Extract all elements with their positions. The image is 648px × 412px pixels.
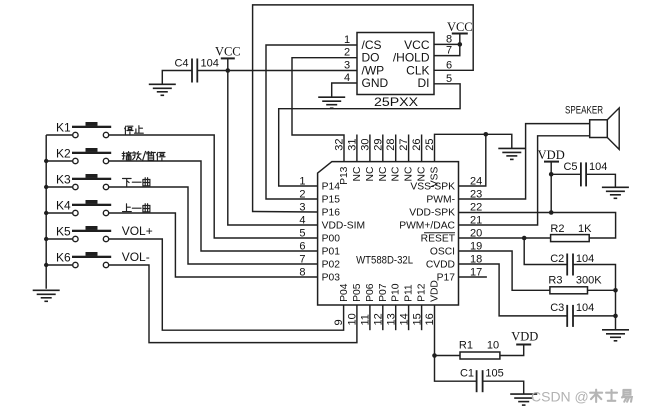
wire DI to U1 P14 <box>279 84 460 186</box>
junction VSS node <box>484 132 489 137</box>
junction VDD/R1 node <box>432 353 437 358</box>
svg-text:NC: NC <box>365 166 376 181</box>
svg-text:VDD: VDD <box>430 280 441 302</box>
pushbutton K5 <box>46 226 111 242</box>
svg-text:P00: P00 <box>322 233 341 244</box>
wire RESET (pin20) to R2 <box>459 237 551 239</box>
speaker LS1 <box>590 108 620 149</box>
watermark CSDN @木士易 <box>531 389 632 405</box>
svg-text:1: 1 <box>299 176 305 188</box>
wire K2 to U1 P01 <box>109 161 318 251</box>
svg-text:P04: P04 <box>339 283 350 302</box>
junction VCC//HOLD node <box>458 42 463 47</box>
wire C1 row right to ground <box>483 381 524 394</box>
wire K6 to U1 P05 (pin10) <box>109 265 357 343</box>
svg-text:8: 8 <box>299 267 305 279</box>
svg-text:5: 5 <box>299 228 305 240</box>
svg-text:7: 7 <box>446 45 452 57</box>
wire /HOLD riser to VCC <box>434 34 460 56</box>
wire PWM- (pin23) to speaker top <box>459 124 590 199</box>
ground at VSS <box>498 148 525 159</box>
pushbutton K2 <box>46 148 111 164</box>
svg-text:VDD-SPK: VDD-SPK <box>409 207 455 218</box>
wire C5 row right to ground <box>586 174 615 187</box>
svg-text:6: 6 <box>446 59 452 71</box>
ground at button bus <box>33 290 60 301</box>
ground at C1 <box>510 394 537 405</box>
svg-text:VSS: VSS <box>430 166 441 187</box>
wire K3 to U1 P02 <box>109 187 318 264</box>
junction bus K5 <box>44 237 48 241</box>
svg-text:C5: C5 <box>563 161 577 173</box>
svg-text:K5: K5 <box>56 225 71 239</box>
svg-text:104: 104 <box>576 302 594 314</box>
junction bus K3 <box>44 185 48 189</box>
wire VDD stem <box>550 162 552 213</box>
svg-text:NC: NC <box>391 166 402 181</box>
svg-text:RESET: RESET <box>421 233 456 244</box>
wire C3 right to node column <box>573 315 616 317</box>
svg-text:CSDN @: CSDN @ <box>531 389 589 405</box>
svg-text:300K: 300K <box>576 275 602 287</box>
svg-text:C1: C1 <box>460 367 474 379</box>
wire node column to ground <box>615 290 617 330</box>
wire R1 row left <box>435 355 461 357</box>
capacitor C1 plates <box>477 370 483 392</box>
svg-text:15: 15 <box>411 313 423 325</box>
svg-text:105: 105 <box>485 367 503 379</box>
wire VSS (pin25) to ground <box>435 134 512 161</box>
bottom pin stubs pins 11-15 <box>370 305 422 330</box>
junction VDD/C5 <box>549 172 554 177</box>
svg-text:10: 10 <box>487 339 499 351</box>
svg-text:1: 1 <box>344 34 350 46</box>
svg-text:NC: NC <box>417 166 428 181</box>
pushbutton K1 <box>46 122 111 138</box>
IC U1 WT588D-32L body <box>318 162 459 305</box>
svg-text:30: 30 <box>359 139 371 151</box>
svg-text:5: 5 <box>446 73 452 85</box>
wire K4 to U1 P03 <box>109 213 318 277</box>
wire R3 right to node column <box>588 289 616 291</box>
label 下一曲 (next track) <box>123 178 150 187</box>
svg-text:K2: K2 <box>56 147 71 161</box>
svg-text:C3: C3 <box>550 302 564 314</box>
top pin stubs NC pins 31-26 <box>357 135 422 162</box>
label 上一曲 (previous track) <box>123 204 150 212</box>
svg-text:SPEAKER: SPEAKER <box>565 105 603 117</box>
junction C4/VCC node <box>226 68 231 73</box>
power VDD symbol (C5 node) <box>538 148 565 162</box>
svg-text:3: 3 <box>299 202 305 214</box>
IC 25PXX body <box>357 33 434 95</box>
label 播放/暂停 (play/pause) <box>122 151 165 160</box>
svg-text:11: 11 <box>360 314 372 325</box>
junction R3/C2 node <box>613 288 618 293</box>
pin labels NC (rotated) <box>352 166 428 181</box>
svg-text:NC: NC <box>352 166 363 181</box>
svg-text:104: 104 <box>589 161 607 173</box>
svg-text:K1: K1 <box>56 121 71 135</box>
junction VDD/VDD-SPK <box>549 210 554 215</box>
ground at C5 <box>602 187 629 198</box>
wire OSCI (pin19) to R3 <box>459 251 550 290</box>
wire C2 right to node column <box>573 265 616 291</box>
wire K1 to U1 P00 <box>109 135 318 238</box>
power VCC symbol (C4 node) <box>215 45 241 59</box>
wire VCC tap to U1 VDD-SIM <box>228 58 318 225</box>
capacitor C5 plates <box>581 162 586 186</box>
svg-text:7: 7 <box>299 254 305 266</box>
svg-text:VOL+: VOL+ <box>122 224 153 238</box>
svg-text:12: 12 <box>373 313 385 325</box>
wire /WP row right of C4 <box>197 70 357 72</box>
pushbutton K3 <box>46 174 111 190</box>
svg-text:C4: C4 <box>174 58 188 70</box>
svg-text:4: 4 <box>299 215 305 227</box>
junction bus K4 <box>44 211 48 215</box>
svg-text:32: 32 <box>334 139 346 151</box>
pin label RESET with overline <box>421 233 456 245</box>
svg-text:6: 6 <box>299 241 305 253</box>
svg-text:P01: P01 <box>322 246 341 257</box>
svg-text:8: 8 <box>446 33 452 45</box>
wire C4 to ground <box>162 71 192 85</box>
junction RESET node <box>522 236 527 241</box>
svg-text:28: 28 <box>385 139 397 151</box>
svg-text:GND: GND <box>362 76 389 90</box>
svg-text:26: 26 <box>411 139 423 151</box>
svg-text:VCC: VCC <box>447 20 473 34</box>
wire button common bus <box>45 135 47 289</box>
svg-text:DI: DI <box>418 76 430 90</box>
svg-text:K6: K6 <box>56 251 71 265</box>
svg-text:31: 31 <box>346 139 358 151</box>
svg-text:VOL-: VOL- <box>122 250 150 264</box>
svg-text:P12: P12 <box>417 283 428 302</box>
capacitor C4 plates <box>192 59 197 83</box>
svg-text:9: 9 <box>333 319 345 325</box>
svg-text:VDD-SIM: VDD-SIM <box>322 220 365 231</box>
wire VCC: 25PXX pin8 <box>434 43 460 45</box>
svg-text:P06: P06 <box>365 283 376 302</box>
svg-text:CVDD: CVDD <box>426 259 455 270</box>
svg-text:27: 27 <box>398 139 410 151</box>
svg-text:PWM-: PWM- <box>426 194 455 205</box>
svg-text:P02: P02 <box>322 259 341 270</box>
ground at C4 <box>149 84 176 95</box>
capacitor C3 plates <box>567 305 573 327</box>
svg-text:R1: R1 <box>459 339 473 351</box>
svg-text:PWM+/DAC: PWM+/DAC <box>399 220 455 231</box>
svg-text:R2: R2 <box>550 223 564 235</box>
wire R1 right to VDD <box>500 345 524 356</box>
svg-text:NC: NC <box>378 166 389 181</box>
wire C5 row left <box>551 173 581 175</box>
svg-text:22: 22 <box>470 202 482 214</box>
svg-text:14: 14 <box>398 313 410 325</box>
svg-text:29: 29 <box>372 139 384 151</box>
svg-text:VCC: VCC <box>215 45 241 59</box>
wire VDD-SPK (pin22) to R2 right end <box>459 213 616 239</box>
svg-text:K3: K3 <box>56 173 71 187</box>
svg-text:WT588D-32L: WT588D-32L <box>356 255 413 267</box>
svg-text:1K: 1K <box>578 223 592 235</box>
ground at RC node column <box>602 330 629 341</box>
wire VDD (pin16) down to C1 row <box>435 305 477 381</box>
wire CLK loop to U1 P16 <box>253 5 474 212</box>
wire DO: 25PXX pin2 to U1 P13 (pin32) <box>292 58 357 162</box>
svg-text:P16: P16 <box>322 207 341 218</box>
wire K5 to U1 P04 (pin9) <box>109 239 344 330</box>
svg-text:25PXX: 25PXX <box>374 95 418 109</box>
junction C3 node <box>613 314 618 319</box>
svg-text:P03: P03 <box>322 272 341 283</box>
wire RESET branch to C2 <box>524 238 567 265</box>
wire /CS: 25PXX pin1 to U1 P15 <box>266 45 357 199</box>
svg-text:P15: P15 <box>322 194 341 205</box>
svg-text:2: 2 <box>299 189 305 201</box>
svg-text:P10: P10 <box>391 283 402 302</box>
svg-text:P07: P07 <box>378 283 389 302</box>
label 停止 (stop) <box>125 126 144 134</box>
wire P17 stub (pin17) <box>459 276 487 278</box>
svg-text:P05: P05 <box>352 283 363 302</box>
pushbutton K4 <box>46 200 111 216</box>
svg-text:NC: NC <box>404 166 415 181</box>
svg-text:P14: P14 <box>322 181 341 192</box>
wire PWM+/DAC (pin21) to speaker bottom <box>459 136 590 225</box>
svg-text:2: 2 <box>344 47 350 59</box>
resistor R3 body <box>550 287 588 294</box>
svg-text:10: 10 <box>347 313 359 325</box>
wire VSS-SPK (pin24) <box>459 134 486 186</box>
junction bus K6 <box>44 263 48 267</box>
svg-text:C2: C2 <box>550 253 564 265</box>
svg-text:13: 13 <box>385 313 397 325</box>
ground at 25PXX pin4 <box>318 97 345 108</box>
svg-text:R3: R3 <box>548 275 562 287</box>
svg-text:VDD: VDD <box>511 330 538 344</box>
svg-text:4: 4 <box>344 72 350 84</box>
svg-text:P13: P13 <box>339 166 350 185</box>
resistor R1 body <box>460 352 500 359</box>
pushbutton K6 <box>46 252 111 268</box>
svg-text:3: 3 <box>344 60 350 72</box>
svg-text:104: 104 <box>576 253 594 265</box>
wire GND of 25PXX <box>332 83 357 97</box>
svg-text:104: 104 <box>201 58 219 70</box>
svg-text:OSCI: OSCI <box>430 246 455 257</box>
resistor R2 body <box>551 235 590 242</box>
svg-text:K4: K4 <box>56 199 71 213</box>
wire CVDD (pin18) to C3 <box>459 264 568 316</box>
svg-text:P11: P11 <box>404 284 415 302</box>
power VCC symbol (25PXX) <box>447 20 473 34</box>
svg-text:VDD: VDD <box>538 148 565 162</box>
junction bus K2 <box>44 159 48 163</box>
power VDD symbol (R1) <box>511 330 538 345</box>
capacitor C2 plates <box>567 254 573 276</box>
